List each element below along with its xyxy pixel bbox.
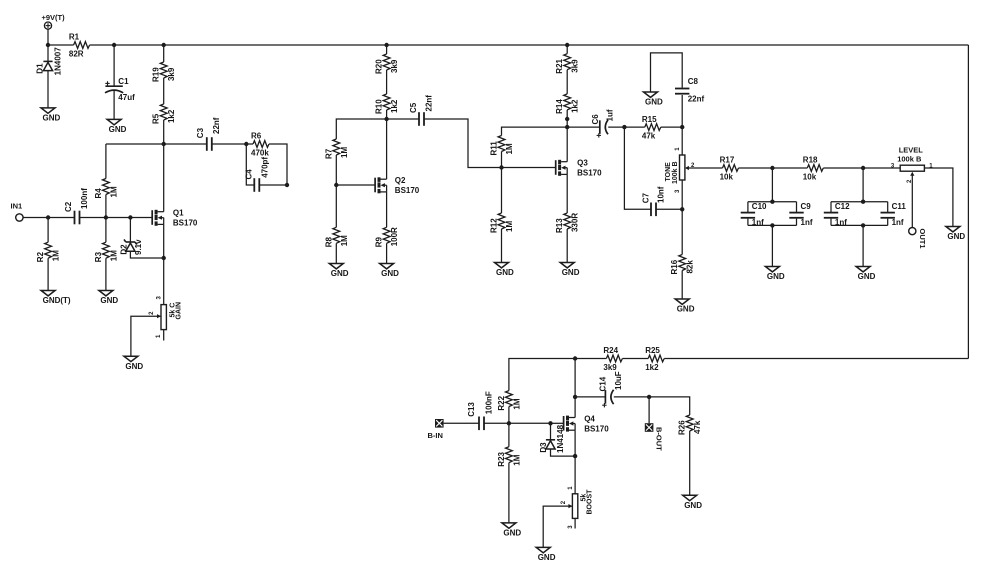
svg-text:GND: GND	[684, 501, 702, 510]
wire rail to R19	[163, 45, 165, 62]
wire R23 to ground	[508, 463, 510, 523]
wire Q1 source down	[163, 224, 165, 258]
svg-text:C7: C7	[641, 193, 650, 204]
svg-text:R23: R23	[497, 451, 506, 466]
wire node A row to R4	[105, 144, 107, 179]
svg-text:GND: GND	[125, 362, 143, 371]
svg-text:1M: 1M	[340, 235, 349, 246]
svg-text:LEVEL: LEVEL	[899, 146, 924, 155]
junction Q4 source node	[573, 454, 577, 458]
ground below R26	[683, 495, 703, 510]
wire node to R24	[575, 358, 606, 360]
capacitor C2 100nf	[64, 188, 89, 225]
svg-text:GND: GND	[331, 269, 349, 278]
capacitor C3 22nf	[196, 117, 221, 151]
wire C10 block top	[748, 201, 797, 203]
svg-text:1M: 1M	[512, 454, 521, 465]
wire R21 to R14	[566, 70, 568, 94]
potentiometer BOOST 5k	[568, 489, 593, 519]
wire C5 to Q3 gate row	[424, 119, 502, 168]
wire C10 branch bottom	[747, 219, 749, 226]
svg-text:10uF: 10uF	[614, 371, 623, 390]
LEVEL pin 2 label	[907, 179, 913, 183]
svg-text:100k B: 100k B	[672, 161, 679, 184]
wire R20 to R10	[386, 70, 388, 94]
svg-text:R21: R21	[555, 58, 564, 73]
GAIN pin 3 label	[156, 296, 162, 300]
svg-text:C6: C6	[591, 114, 600, 125]
wire node to R6	[246, 143, 253, 145]
resistor R19 3k9	[152, 62, 177, 82]
wire R14 to node C	[566, 110, 568, 119]
junction B-OUT node	[647, 395, 651, 399]
resistor R9 100R	[375, 227, 400, 247]
wire C12 block top	[831, 201, 888, 203]
wire node to LEVEL pin 3	[863, 167, 900, 169]
junction rail at D1	[46, 43, 50, 47]
resistor R5 1k2	[152, 104, 177, 124]
svg-text:GND: GND	[503, 529, 521, 538]
wire node to D2	[106, 217, 130, 219]
wire C7 to C6 node	[624, 127, 651, 209]
wire tone bottom to R16	[681, 209, 683, 254]
junction node C (Q3 drain/C6/R11)	[565, 125, 569, 129]
svg-text:D1: D1	[36, 63, 45, 74]
ground below LEVEL pin 1	[946, 227, 966, 242]
wire +9V to rail	[47, 29, 49, 45]
wire Q4 source down	[574, 430, 576, 456]
wire D2 node to Q1 gate	[130, 217, 152, 219]
svg-text:BS170: BS170	[577, 169, 602, 178]
wire node to C6 row	[566, 119, 568, 127]
transistor Q4 BS170	[564, 415, 610, 434]
resistor R15 47k	[642, 115, 661, 141]
LEVEL pin 1 label	[929, 164, 933, 170]
svg-text:R14: R14	[555, 99, 564, 114]
resistor R21 3k9	[555, 54, 580, 74]
wire R26 to ground	[689, 431, 691, 495]
wire node to R15	[624, 126, 644, 128]
svg-text:R10: R10	[375, 99, 384, 114]
wire node A to C3	[164, 143, 207, 145]
svg-text:1k2: 1k2	[645, 363, 659, 372]
terminal B-IN	[428, 419, 444, 440]
wire GAIN pin 1 stub	[163, 330, 165, 341]
wire rail to D1	[47, 45, 49, 61]
BOOST pin 1 label	[568, 486, 574, 490]
svg-text:1k2: 1k2	[571, 99, 580, 113]
junction Q2 gate node	[334, 183, 338, 187]
wire R25 to rail (right edge)	[664, 358, 968, 360]
svg-text:GND: GND	[677, 305, 695, 314]
wire C10 block bottom	[748, 224, 797, 226]
wire node C to C6	[567, 126, 600, 128]
wire R12 to ground	[501, 229, 503, 263]
wire BOOST pin 3 stub	[574, 518, 576, 528]
svg-text:R11: R11	[490, 141, 499, 156]
junction boost supply node	[573, 356, 577, 360]
junction C10 block top tee	[770, 200, 774, 204]
transistor Q2 BS170	[375, 176, 420, 195]
wire C13 to R22 node	[484, 422, 509, 424]
capacitor C14 10uF (polarized)	[599, 371, 623, 407]
svg-text:D2: D2	[119, 244, 128, 255]
wire C6 to C7 node	[608, 126, 624, 128]
ground below C10/C9	[765, 267, 785, 282]
svg-text:R26: R26	[678, 420, 687, 435]
junction node B (R10/R7/C5/Q2 drain)	[384, 117, 388, 121]
svg-text:1M: 1M	[512, 398, 521, 409]
wire node down to C12 block	[862, 168, 864, 202]
junction input at R2	[46, 215, 50, 219]
capacitor C6 1uf (polarized)	[591, 109, 615, 137]
ground C8 return	[644, 92, 664, 107]
potentiometer LEVEL 100k B	[897, 146, 924, 176]
wire R18 to C12 node	[823, 167, 863, 169]
wire R8 to ground	[335, 243, 337, 263]
potentiometer GAIN 5k	[157, 302, 183, 330]
junction C6/C7 node	[622, 125, 626, 129]
wire R1 to C1 node	[90, 44, 115, 46]
capacitor C13 100nF	[467, 391, 494, 430]
junction R6/C4 right node	[285, 183, 289, 187]
wire R3 top	[105, 218, 107, 243]
resistor R16 82k	[670, 255, 695, 275]
resistor R6 470k	[251, 132, 269, 158]
junction Q4 drain node (C14)	[573, 395, 577, 399]
svg-text:1M: 1M	[505, 221, 514, 232]
svg-text:C12: C12	[835, 202, 850, 211]
wire BOOST wiper to ground	[543, 506, 572, 547]
wire node to R26	[649, 397, 690, 415]
resistor R26 47k	[678, 415, 703, 435]
wire Q2 source down	[386, 192, 388, 227]
junction R6/C4 left node	[244, 142, 248, 146]
svg-text:82R: 82R	[69, 49, 84, 58]
wire R6 to corner	[269, 144, 287, 185]
wire rail to R20	[386, 45, 388, 54]
wire source node to BOOST pot	[574, 456, 576, 494]
wire gate node to D3 node	[509, 422, 551, 424]
diode D3 1N4148	[539, 424, 565, 453]
wire gate node to Q3 gate	[502, 167, 556, 169]
wire R2 top	[47, 218, 49, 243]
wire C12 branch top	[830, 202, 832, 212]
ground below C12/C11	[856, 267, 876, 282]
wire gate node to R8	[335, 185, 337, 227]
svg-text:22nf: 22nf	[425, 95, 434, 112]
svg-text:R13: R13	[555, 218, 564, 233]
svg-text:BS170: BS170	[584, 425, 609, 434]
svg-text:1M: 1M	[340, 147, 349, 158]
wire gate node to R12	[501, 168, 503, 214]
svg-text:100k B: 100k B	[897, 155, 922, 164]
ground below BOOST wiper	[536, 547, 556, 562]
resistor R25 1k2	[645, 346, 664, 372]
resistor R14 1k2	[555, 94, 580, 114]
svg-text:GND: GND	[562, 268, 580, 277]
ground below R8	[329, 264, 349, 279]
wire Q2 drain	[386, 119, 388, 179]
junction node at C10 block	[770, 166, 774, 170]
svg-text:10k: 10k	[720, 172, 734, 181]
svg-text:C13: C13	[467, 402, 476, 417]
wire +9V rail	[114, 44, 968, 46]
svg-text:C4: C4	[245, 169, 254, 180]
wire R9 to ground	[386, 243, 388, 263]
terminal IN1	[11, 202, 24, 222]
wire C12 branch bottom	[830, 219, 832, 226]
svg-text:R9: R9	[375, 237, 384, 248]
wire C3 to R6/C4 node	[212, 143, 247, 145]
svg-text:GND: GND	[947, 232, 965, 241]
resistor R2 1M	[36, 242, 61, 262]
wire GAIN wiper to ground	[131, 316, 161, 356]
capacitor C11 1nf	[881, 202, 907, 227]
svg-text:OUT1: OUT1	[918, 229, 927, 249]
svg-text:22nf: 22nf	[212, 117, 221, 134]
ground below GAIN wiper	[124, 356, 143, 371]
svg-text:B-OUT: B-OUT	[654, 427, 663, 451]
diode D1 1N4007	[36, 47, 63, 76]
svg-text:R19: R19	[152, 67, 161, 82]
ground below R23	[502, 523, 522, 538]
svg-text:3k9: 3k9	[571, 59, 580, 73]
svg-text:100R: 100R	[390, 227, 399, 246]
GAIN pin 1 label	[156, 334, 162, 338]
svg-text:R17: R17	[720, 156, 735, 165]
wire C1 to ground	[113, 91, 115, 120]
svg-text:47uf: 47uf	[118, 93, 135, 102]
svg-text:GND: GND	[43, 114, 61, 123]
svg-text:1M: 1M	[109, 250, 118, 261]
svg-text:C11: C11	[892, 202, 907, 211]
resistor R20 3k9	[375, 54, 400, 74]
svg-text:9.1v: 9.1v	[134, 239, 143, 255]
wire R17 to C10 node	[739, 167, 773, 169]
junction Q1 source node	[162, 256, 166, 260]
svg-text:Q2: Q2	[395, 176, 406, 185]
wire drain node to Q4	[574, 397, 576, 418]
capacitor C9 1nf	[789, 202, 813, 227]
junction node A (R5/C3/Q1 drain)	[162, 142, 166, 146]
junction R14 bottom node	[565, 117, 569, 121]
resistor R22 1M	[497, 391, 522, 411]
wire tone node to C8	[681, 95, 683, 127]
wire C4 to right node	[259, 184, 287, 186]
terminal OUT1	[909, 228, 927, 249]
resistor R7 1M	[324, 139, 349, 159]
wire R2 to ground	[47, 258, 49, 290]
wire gate node to R23	[508, 423, 510, 446]
resistor R18 10k	[803, 156, 824, 182]
junction Q3 gate node	[499, 165, 503, 169]
svg-text:1M: 1M	[109, 186, 118, 197]
wire D1 to ground	[47, 71, 49, 108]
capacitor C8 22nf	[675, 77, 704, 104]
capacitor C7 10nf	[641, 186, 665, 216]
wire rail to R21	[566, 45, 568, 54]
wire node B to C5	[387, 118, 419, 120]
svg-text:D3: D3	[539, 442, 548, 453]
svg-text:R12: R12	[490, 218, 499, 233]
wire tone node to TONE pin 1	[681, 127, 683, 155]
wire node to C14 node	[574, 359, 576, 397]
wire LEVEL pin 1 to ground	[924, 168, 953, 227]
GAIN pin 2 label	[149, 311, 155, 315]
junction rail at C1	[112, 43, 116, 47]
svg-text:R5: R5	[152, 113, 161, 124]
svg-text:1k2: 1k2	[390, 99, 399, 113]
svg-text:1nf: 1nf	[801, 218, 813, 227]
wire R4 to node A	[106, 143, 164, 145]
potentiometer TONE 100k B	[665, 155, 689, 184]
svg-text:+9V(T): +9V(T)	[42, 13, 66, 22]
svg-text:Q3: Q3	[577, 159, 588, 168]
svg-text:R8: R8	[324, 237, 333, 248]
svg-text:22nf: 22nf	[688, 95, 705, 104]
junction rail at R21	[565, 43, 569, 47]
svg-text:R18: R18	[803, 156, 818, 165]
svg-text:3k9: 3k9	[167, 67, 176, 81]
svg-text:C9: C9	[801, 202, 812, 211]
ground below R12	[495, 263, 515, 278]
svg-text:47k: 47k	[693, 420, 702, 434]
LEVEL pin 3 label	[891, 164, 895, 170]
wire C2 to R3/R4 node	[80, 217, 106, 219]
wire TONE pin 3 down	[681, 180, 683, 209]
wire drain node to C14	[575, 396, 605, 398]
junction node at D3	[548, 421, 552, 425]
junction C12 block bottom tee	[861, 223, 865, 227]
wire B-OUT stub	[648, 397, 650, 423]
wire tone bottom to C7	[656, 208, 682, 210]
svg-text:1nf: 1nf	[892, 218, 904, 227]
ground below R16	[675, 299, 695, 314]
wire R13 to ground	[566, 229, 568, 263]
capacitor C12 1nf	[824, 202, 850, 227]
ground below C1	[107, 119, 127, 134]
svg-text:C10: C10	[752, 202, 767, 211]
svg-text:R15: R15	[642, 115, 657, 124]
junction tone top node (R15/C8/TONE 1)	[680, 125, 684, 129]
junction tone bottom node (C7/R16/TONE 3)	[680, 207, 684, 211]
wire R3 to ground	[105, 258, 107, 290]
wire D2 to Q1 source	[130, 251, 163, 258]
svg-text:C1: C1	[118, 77, 129, 86]
svg-text:10nf: 10nf	[657, 186, 666, 203]
svg-text:R1: R1	[69, 33, 80, 42]
power +9V(T) supply	[42, 13, 66, 29]
wire C12 block to ground	[862, 225, 864, 266]
wire B-IN to C13	[444, 422, 479, 424]
svg-text:GAIN: GAIN	[176, 302, 183, 320]
wire rail: D1 to R1	[48, 44, 74, 46]
svg-text:GND: GND	[100, 296, 118, 305]
transistor Q3 BS170	[556, 159, 602, 178]
svg-text:470pf: 470pf	[260, 157, 269, 178]
resistor R24 3k9	[603, 346, 622, 372]
svg-text:1N4007: 1N4007	[54, 47, 63, 76]
svg-text:R3: R3	[94, 251, 103, 262]
wire C11 branch bottom	[887, 219, 889, 226]
svg-text:R7: R7	[324, 148, 333, 159]
wire TONE wiper to R17	[688, 167, 722, 169]
wire Q3 drain	[566, 127, 568, 162]
wire R15 to tone node	[661, 126, 682, 128]
svg-text:1k2: 1k2	[167, 109, 176, 123]
svg-text:10k: 10k	[803, 172, 817, 181]
svg-text:GND: GND	[381, 269, 399, 278]
resistor R11 1M	[490, 136, 515, 156]
junction node at C12 block	[861, 166, 865, 170]
resistor R4 1M	[94, 179, 119, 199]
wire C11 branch top	[887, 202, 889, 212]
wire rail to boost section (right edge)	[967, 45, 969, 359]
svg-text:1M: 1M	[505, 143, 514, 154]
svg-text:R4: R4	[94, 188, 103, 199]
wire IN1 to C2	[23, 217, 74, 219]
svg-text:R16: R16	[670, 259, 679, 274]
capacitor C1 47uf (polarized)	[105, 77, 135, 102]
svg-text:GND: GND	[538, 553, 556, 562]
svg-text:3k9: 3k9	[603, 363, 617, 372]
svg-text:R22: R22	[497, 395, 506, 410]
svg-text:BOOST: BOOST	[587, 489, 594, 515]
capacitor C5 22nf	[409, 95, 434, 126]
resistor R23 1M	[497, 447, 522, 467]
wire source node to GAIN pot	[163, 258, 165, 305]
wire R5 to node A	[163, 120, 165, 144]
wire node B to R7	[336, 119, 386, 139]
TONE pin 1 label	[675, 147, 681, 151]
wire D3 node to Q4 gate	[551, 422, 564, 424]
wire node C to R11	[502, 127, 568, 135]
ground below R9	[380, 264, 400, 279]
wire R22 to gate node	[508, 407, 510, 424]
resistor R1 82R	[69, 33, 90, 59]
svg-text:BS170: BS170	[395, 186, 420, 195]
ground below D1	[41, 108, 61, 123]
wire C10 block to ground	[771, 225, 773, 266]
svg-text:100nf: 100nf	[80, 188, 89, 209]
BOOST pin 2 label	[561, 500, 567, 504]
wire gate node to Q2 gate	[336, 184, 375, 186]
wire Q3 source down	[566, 174, 568, 213]
wire C9 branch top	[796, 202, 798, 212]
zener diode D2 9.1v	[119, 239, 143, 255]
wire C12 block bottom	[831, 224, 888, 226]
svg-text:IN1: IN1	[11, 202, 23, 211]
wire D3 top	[550, 423, 552, 440]
wire node down to C10 block	[771, 168, 773, 202]
svg-text:BS170: BS170	[173, 219, 198, 228]
svg-text:C2: C2	[64, 201, 73, 212]
svg-text:GND(T): GND(T)	[43, 296, 71, 305]
BOOST pin 3 label	[568, 525, 574, 529]
wire rail to C1	[113, 45, 115, 86]
svg-text:47k: 47k	[642, 132, 656, 141]
svg-text:GND: GND	[109, 125, 127, 134]
wire R4 to input row	[105, 195, 107, 218]
svg-text:GND: GND	[496, 268, 514, 277]
svg-text:C14: C14	[599, 376, 608, 391]
svg-text:470k: 470k	[251, 148, 269, 157]
TONE pin 3 label	[675, 189, 681, 193]
svg-text:R2: R2	[36, 251, 45, 262]
junction input node at R3/R4	[104, 215, 108, 219]
svg-text:Q1: Q1	[173, 209, 184, 218]
